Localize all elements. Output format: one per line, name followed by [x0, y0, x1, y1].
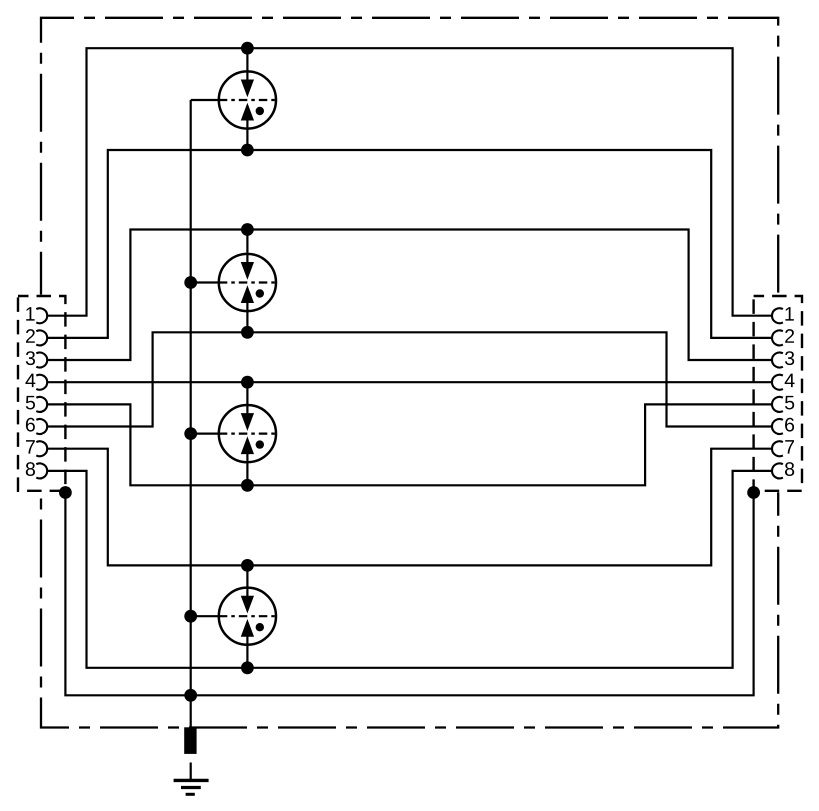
wire stub ground rail to arrester F1 electrode	[191, 99, 221, 101]
pin 3 (right connector): contact arc + number label	[772, 351, 794, 367]
pin 2 (right connector): contact arc + number label	[772, 329, 794, 345]
wire line 4 (via arrester F3 top)	[47, 381, 772, 383]
surge arrester F1 (gas discharge tube)	[219, 48, 276, 150]
pin 6 (right connector): contact arc + number label	[772, 418, 794, 434]
junction arrester F1 bottom terminal	[241, 144, 254, 157]
wire stub ground rail to arrester F4 electrode	[191, 615, 221, 617]
pin 7 (left connector): contact arc + number label	[26, 440, 47, 456]
wire line 8 (via arrester F4 bottom)	[47, 471, 772, 668]
wire ground rail (vertical)	[190, 100, 192, 728]
junction arrester F3 bottom terminal	[241, 479, 254, 492]
junction ground rail / shield bus	[184, 689, 197, 702]
pin 4 (right connector): contact arc + number label	[772, 374, 795, 390]
junction arrester F4 top terminal	[241, 559, 254, 572]
wire ground symbol lead	[190, 763, 192, 780]
earthing terminal (solid bar)	[184, 727, 196, 754]
pin 8 (right connector): contact arc + number label	[772, 462, 794, 478]
pin 5 (left connector): contact arc + number label	[26, 396, 47, 412]
junction ground rail / F4 stub	[184, 610, 197, 623]
pin 1 (left connector): contact arc + number label	[26, 307, 47, 323]
wire line 1 (via arrester F1 top)	[47, 48, 772, 316]
surge arrester F4 (gas discharge tube)	[219, 565, 276, 667]
outer boundary enclosure (dash-dot frame, upper half)	[41, 18, 778, 295]
pin 2 (left connector): contact arc + number label	[26, 329, 47, 345]
pin 3 (left connector): contact arc + number label	[26, 351, 47, 367]
junction arrester F1 top terminal	[241, 42, 254, 55]
junction arrester F3 top terminal	[241, 376, 254, 389]
junction arrester F4 bottom terminal	[241, 661, 254, 674]
junction left connector shield contact	[59, 486, 72, 499]
pin 5 (right connector): contact arc + number label	[772, 396, 794, 412]
right connector block (dashed box)	[754, 296, 802, 491]
pin 4 (left connector): contact arc + number label	[25, 374, 47, 390]
junction ground rail / F3 stub	[184, 427, 197, 440]
pin 8 (left connector): contact arc + number label	[26, 462, 47, 478]
wire line 5 (via arrester F3 bottom)	[47, 404, 772, 485]
wire line 7 (via arrester F4 top)	[47, 449, 772, 566]
surge arrester F2 (gas discharge tube)	[219, 230, 276, 333]
wire stub ground rail to arrester F3 electrode	[191, 433, 221, 435]
junction right connector shield contact	[747, 486, 760, 499]
wire shield bus (left drop, bottom run, right drop)	[65, 493, 753, 696]
pin 1 (right connector): contact arc + number label	[772, 307, 794, 323]
pin 7 (right connector): contact arc + number label	[772, 440, 794, 456]
left connector block (dashed box)	[18, 296, 65, 491]
wire line 3 (via arrester F2 top)	[47, 230, 772, 361]
surge arrester F3 (gas discharge tube)	[219, 382, 276, 485]
junction ground rail / F2 stub	[184, 276, 197, 289]
wire stub ground rail to arrester F2 electrode	[191, 281, 221, 283]
outer boundary enclosure (dash-dot frame, lower half)	[41, 492, 778, 727]
wire line 6 (via arrester F2 bottom)	[47, 332, 772, 426]
pin 6 (left connector): contact arc + number label	[26, 418, 47, 434]
junction arrester F2 top terminal	[241, 223, 254, 236]
ground (earth) symbol	[174, 780, 209, 794]
junction arrester F2 bottom terminal	[241, 326, 254, 339]
wire line 2 (via arrester F1 bottom)	[47, 150, 772, 338]
